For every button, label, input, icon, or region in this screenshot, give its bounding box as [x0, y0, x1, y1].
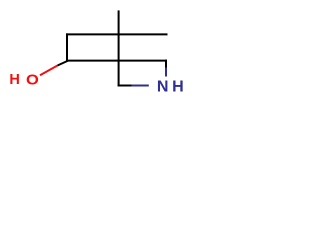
- wire: azetidine right edge CH2-N blue half: [165, 68, 167, 77]
- wire: cyclobutane top edge C7-C6: [66, 33, 119, 35]
- svg-text:O: O: [26, 71, 39, 88]
- wire: methyl bond C6-CH3 (up): [118, 10, 120, 35]
- svg-text:H: H: [172, 79, 184, 96]
- wire: cyclobutane right edge C6-spiro + azetidine left edge spiro-CH2: [118, 33, 120, 86]
- wire: azetidine bottom edge CH2-N black half: [118, 85, 132, 87]
- wire: azetidine right edge CH2-N black half: [165, 60, 167, 68]
- wire: azetidine bottom edge CH2-N blue half: [132, 85, 149, 87]
- wire: cyclobutane left edge C7-C1: [66, 33, 68, 61]
- wire: azetidine top edge spiro-CH2: [119, 60, 167, 62]
- svg-text:N: N: [157, 79, 169, 96]
- wire: C1-O bond black half: [58, 61, 68, 66]
- wire: C1-O bond red half: [40, 66, 58, 76]
- wire: cyclobutane bottom edge C1-spiro: [66, 60, 119, 62]
- svg-text:H: H: [9, 72, 19, 88]
- wire: methyl bond C6-CH3 (right): [119, 33, 168, 35]
